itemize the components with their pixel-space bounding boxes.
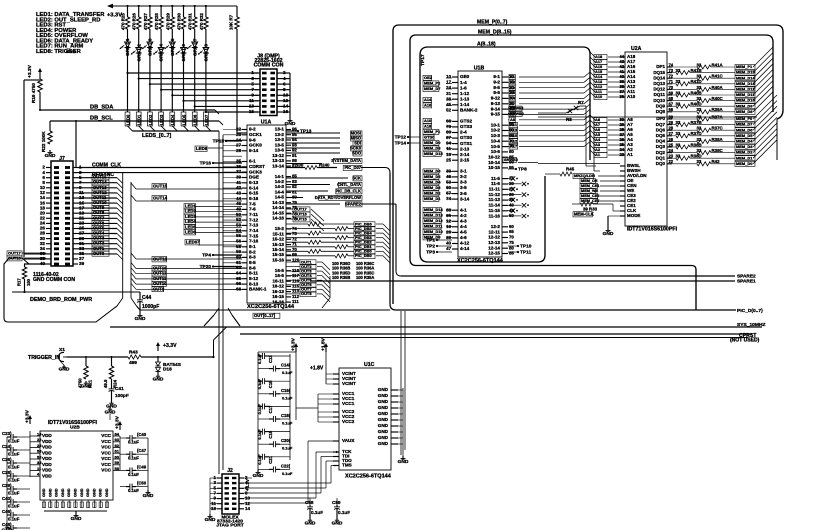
ground xyxy=(45,150,56,159)
svg-text:+3.3V: +3.3V xyxy=(27,64,33,78)
svg-text:11-11: 11-11 xyxy=(489,187,501,192)
svg-text:MEM_D0: MEM_D0 xyxy=(424,140,441,145)
svg-text:LED5: LED5 xyxy=(181,114,186,125)
svg-text:42: 42 xyxy=(236,185,241,190)
svg-text:60: 60 xyxy=(509,224,514,229)
svg-text:7-13: 7-13 xyxy=(249,223,259,228)
svg-text:MEM_D3: MEM_D3 xyxy=(424,185,441,190)
svg-text:9-1: 9-1 xyxy=(493,74,500,79)
wire U1A left pins xyxy=(223,130,242,290)
svg-text:A11: A11 xyxy=(510,122,518,127)
ground U1C xyxy=(398,388,409,465)
svg-text:72: 72 xyxy=(669,74,674,79)
svg-text:A4: A4 xyxy=(510,96,516,101)
svg-text:A1: A1 xyxy=(510,74,516,79)
svg-text:23: 23 xyxy=(236,132,241,137)
svg-text:69: 69 xyxy=(669,90,674,95)
svg-text:75: 75 xyxy=(509,240,514,245)
svg-text:MEM_D13: MEM_D13 xyxy=(736,81,755,86)
svg-text:30: 30 xyxy=(669,114,674,119)
wire CPRST xyxy=(240,333,760,344)
svg-text:8-5: 8-5 xyxy=(249,260,256,265)
svg-text:4-12: 4-12 xyxy=(460,241,470,246)
svg-text:MEM_D14: MEM_D14 xyxy=(424,207,443,212)
svg-text:2-4: 2-4 xyxy=(460,130,467,135)
svg-text:0.1uF: 0.1uF xyxy=(257,429,262,440)
svg-text:GND: GND xyxy=(105,488,109,497)
svg-text:36: 36 xyxy=(619,94,624,99)
svg-text:9-2: 9-2 xyxy=(249,127,256,132)
svg-text:D18: D18 xyxy=(163,367,172,373)
svg-text:10-3: 10-3 xyxy=(491,133,501,138)
svg-text:9-14: 9-14 xyxy=(249,148,259,153)
svg-text:15-16: 15-16 xyxy=(272,257,284,262)
LED D1 GRN xyxy=(120,29,131,56)
svg-text:8-3: 8-3 xyxy=(249,255,256,260)
svg-text:4-6: 4-6 xyxy=(460,235,467,240)
svg-text:PIC_DB_CLK: PIC_DB_CLK xyxy=(335,189,361,194)
svg-text:15-12: 15-12 xyxy=(272,237,284,242)
svg-text:MEM_D14: MEM_D14 xyxy=(736,75,755,80)
svg-text:GND: GND xyxy=(71,516,82,522)
svg-text:A5: A5 xyxy=(510,90,516,95)
svg-text:U1C: U1C xyxy=(364,362,375,368)
svg-text:DQ9: DQ9 xyxy=(656,103,666,108)
svg-text:MEM_D(8..15): MEM_D(8..15) xyxy=(478,30,512,36)
ground U2A xyxy=(603,216,620,237)
wire xyxy=(125,47,132,132)
svg-text:100pF: 100pF xyxy=(115,393,129,399)
svg-text:GTS0: GTS0 xyxy=(460,135,472,140)
svg-text:24: 24 xyxy=(446,85,451,90)
svg-text:GCK0: GCK0 xyxy=(249,143,262,148)
svg-text:TP14: TP14 xyxy=(395,140,407,146)
svg-text:7-5: 7-5 xyxy=(249,201,256,206)
capacitor bank C23-C40 xyxy=(2,431,30,530)
svg-text:LED0: LED0 xyxy=(125,114,130,125)
capacitor C58 xyxy=(305,498,324,526)
svg-text:12-13: 12-13 xyxy=(488,240,500,245)
svg-text:DQ12: DQ12 xyxy=(653,87,665,92)
power +3.3V LED rail xyxy=(107,4,237,19)
svg-text:R240: R240 xyxy=(319,163,330,168)
svg-text:TP10: TP10 xyxy=(520,243,532,249)
wire U1B to A bus xyxy=(508,72,590,149)
node LED1-LED7 labels xyxy=(184,204,242,246)
svg-text:DATA_RDY/OVERFLOW: DATA_RDY/OVERFLOW xyxy=(315,195,361,200)
svg-text:DQ2: DQ2 xyxy=(656,150,666,155)
wire JTAG signals xyxy=(244,441,333,503)
svg-text:VDD: VDD xyxy=(42,433,52,438)
svg-text:VDD: VDD xyxy=(42,456,52,461)
wire U1C power rails xyxy=(296,374,333,422)
svg-text:VAUX: VAUX xyxy=(342,438,355,443)
svg-text:100: 100 xyxy=(26,278,31,286)
svg-text:MEM_P0: MEM_P0 xyxy=(736,116,753,121)
wire U1A lower bus xyxy=(204,131,240,474)
svg-text:8-6: 8-6 xyxy=(249,265,256,270)
wire J7 outputs xyxy=(78,163,247,260)
svg-text:6-16: 6-16 xyxy=(249,196,259,201)
svg-text:LED3: LED3 xyxy=(159,114,164,125)
node A bus trunk xyxy=(590,52,620,158)
svg-text:PIC_D07: PIC_D07 xyxy=(344,165,361,170)
svg-text:70: 70 xyxy=(669,85,674,90)
node SPARE2 SPARE1 xyxy=(310,204,756,285)
svg-text:GND: GND xyxy=(378,387,389,392)
svg-text:470 R28: 470 R28 xyxy=(154,13,159,30)
svg-text:R40C: R40C xyxy=(712,96,724,101)
LED D3 GRN xyxy=(142,29,153,56)
svg-text:TP3: TP3 xyxy=(426,249,435,255)
svg-text:MEM_CE1: MEM_CE1 xyxy=(581,184,600,188)
svg-text:9-6: 9-6 xyxy=(493,90,500,95)
svg-text:GND: GND xyxy=(92,488,96,497)
test point TP1 TP2 TP3 xyxy=(426,237,452,255)
svg-text:1-14: 1-14 xyxy=(460,102,470,107)
svg-text:R17: R17 xyxy=(17,278,22,286)
svg-text:50: 50 xyxy=(236,212,241,217)
svg-text:C14(: C14( xyxy=(281,363,291,368)
svg-text:7-12: 7-12 xyxy=(249,217,259,222)
svg-text:45: 45 xyxy=(446,102,451,107)
svg-text:470 R32: 470 R32 xyxy=(199,13,204,30)
svg-text:A8: A8 xyxy=(510,117,516,122)
wire OUT bus trunk xyxy=(117,172,137,306)
resistor R32 470 xyxy=(199,5,208,30)
svg-text:100 R35A: 100 R35A xyxy=(356,275,374,280)
svg-text:VDD: VDD xyxy=(42,450,52,455)
svg-text:GND: GND xyxy=(106,403,117,409)
svg-text:4-3: 4-3 xyxy=(460,219,467,224)
svg-text:GND COMM CON: GND COMM CON xyxy=(33,277,75,283)
svg-text:0.1uF: 0.1uF xyxy=(128,456,139,461)
svg-text:DQ10: DQ10 xyxy=(653,98,665,103)
svg-text:DQ14: DQ14 xyxy=(653,75,665,80)
resistor R21 4750 xyxy=(78,357,93,389)
svg-text:1-6: 1-6 xyxy=(460,85,467,90)
test point TP15 xyxy=(213,138,242,144)
svg-text:VDD: VDD xyxy=(42,445,52,450)
svg-text:499: 499 xyxy=(129,360,137,366)
svg-text:GND: GND xyxy=(378,399,389,404)
svg-text:(C50: (C50 xyxy=(137,481,147,486)
svg-text:GND: GND xyxy=(378,411,389,416)
svg-text:LED7: LED7 xyxy=(204,114,209,125)
svg-text:OE2: OE2 xyxy=(424,75,433,80)
svg-text:R22 100K: R22 100K xyxy=(41,131,46,152)
svg-text:GND: GND xyxy=(378,435,389,440)
svg-text:R41B: R41B xyxy=(691,68,702,73)
svg-text:TP15: TP15 xyxy=(213,138,225,144)
svg-text:LED2: LED2 xyxy=(148,114,153,125)
svg-text:12-2: 12-2 xyxy=(491,224,501,229)
svg-text:SYSTEM_DATA: SYSTEM_DATA xyxy=(331,158,361,163)
LED D8 GRN xyxy=(198,29,209,62)
svg-text:R37C: R37C xyxy=(712,126,724,131)
svg-text:1-4: 1-4 xyxy=(460,80,467,85)
svg-text:GND: GND xyxy=(99,488,103,497)
svg-text:23: 23 xyxy=(619,152,624,157)
svg-text:LED1: LED1 xyxy=(137,114,142,125)
svg-text:TP12: TP12 xyxy=(395,134,407,140)
svg-text:MEM_D15: MEM_D15 xyxy=(424,151,443,156)
svg-text:MODE: MODE xyxy=(627,213,640,218)
svg-text:DP0: DP0 xyxy=(656,116,665,121)
LED legend text xyxy=(36,12,105,55)
svg-text:GND: GND xyxy=(253,473,264,479)
svg-text:VCC: VCC xyxy=(101,468,111,473)
svg-text:53: 53 xyxy=(236,223,241,228)
svg-text:0.1uF: 0.1uF xyxy=(282,395,293,400)
svg-text:9-14: 9-14 xyxy=(491,106,501,111)
resistor R28 470 xyxy=(154,5,163,30)
svg-text:SCK: SCK xyxy=(352,176,361,181)
capacitor bank C13-C22 xyxy=(257,352,296,476)
svg-text:C58: C58 xyxy=(305,500,314,505)
svg-text:7-6: 7-6 xyxy=(249,207,256,212)
svg-text:JTAG PORT: JTAG PORT xyxy=(216,523,244,529)
svg-text:OUT14: OUT14 xyxy=(153,196,168,201)
power +3.3V trigger xyxy=(156,342,177,357)
svg-text:29: 29 xyxy=(669,120,674,125)
svg-text:12-12: 12-12 xyxy=(488,235,500,240)
svg-text:MEM_D13: MEM_D13 xyxy=(424,213,443,218)
LED D7 GRN xyxy=(187,29,198,56)
svg-text:40: 40 xyxy=(446,241,451,246)
wire LED to J8 harness xyxy=(126,72,258,113)
svg-text:59: 59 xyxy=(236,249,241,254)
svg-text:6-1: 6-1 xyxy=(249,159,256,164)
svg-text:27: 27 xyxy=(236,143,241,148)
svg-text:GND: GND xyxy=(81,383,92,389)
capacitor bank C47-C50 xyxy=(120,432,148,493)
svg-text:0.1uF: 0.1uF xyxy=(282,471,293,476)
svg-text:A3: A3 xyxy=(510,79,516,84)
svg-text:DQ4: DQ4 xyxy=(656,139,666,144)
svg-text:11-16: 11-16 xyxy=(488,213,500,218)
svg-text:22: 22 xyxy=(669,159,674,164)
svg-text:MEM_D2: MEM_D2 xyxy=(424,191,441,196)
svg-text:SRWE2: SRWE2 xyxy=(504,157,519,162)
svg-text:VDD: VDD xyxy=(42,473,52,478)
node OUT17 OUT16 OUT15 taps xyxy=(286,207,324,232)
svg-text:MEM_D8: MEM_D8 xyxy=(736,109,753,114)
svg-text:A2: A2 xyxy=(510,85,516,90)
node OUT lower taps xyxy=(286,259,330,308)
svg-text:10-14: 10-14 xyxy=(488,160,500,165)
svg-text:MEM_D10: MEM_D10 xyxy=(424,229,443,234)
svg-text:28: 28 xyxy=(669,126,674,131)
svg-text:OUT0: OUT0 xyxy=(93,251,105,256)
svg-text:DQ13: DQ13 xyxy=(653,81,665,86)
svg-text:9-12: 9-12 xyxy=(491,96,501,101)
resistor R8 jumper xyxy=(538,117,757,171)
svg-text:0.1uF: 0.1uF xyxy=(282,446,293,451)
svg-text:13: 13 xyxy=(249,104,255,109)
svg-text:A18: A18 xyxy=(424,124,432,129)
svg-text:X1: X1 xyxy=(59,347,65,353)
resistor R22 100K xyxy=(41,121,52,152)
svg-text:36: 36 xyxy=(236,164,241,169)
test point TP13 xyxy=(286,128,312,134)
svg-text:VDD: VDD xyxy=(42,468,52,473)
svg-text:R37D: R37D xyxy=(691,131,702,136)
label J7 part number xyxy=(33,272,75,283)
svg-text:MEM-CLK: MEM-CLK xyxy=(574,212,594,217)
resistor R7 10K xyxy=(229,6,247,133)
svg-text:A17: A17 xyxy=(510,144,518,149)
svg-text:A(8..18): A(8..18) xyxy=(477,42,496,48)
svg-text:SYS_10MHZ: SYS_10MHZ xyxy=(737,322,765,328)
resistor R45 RZQ xyxy=(545,167,620,179)
resistor R29 470 xyxy=(165,5,174,30)
svg-text:A14: A14 xyxy=(424,97,432,102)
svg-text:MEM_D3: MEM_D3 xyxy=(736,144,753,149)
test point TP16 xyxy=(200,160,242,166)
svg-text:DQ15: DQ15 xyxy=(653,70,665,75)
connector J2 JTAG xyxy=(211,468,250,529)
svg-text:9-2: 9-2 xyxy=(493,80,500,85)
svg-text:25: 25 xyxy=(669,142,674,147)
svg-text:GND: GND xyxy=(61,488,65,497)
wire SYS_10MHZ xyxy=(110,322,765,328)
connector J7 COMM CON xyxy=(40,156,85,266)
svg-text:+3.3V: +3.3V xyxy=(163,343,177,349)
svg-text:70: 70 xyxy=(509,235,514,240)
svg-text:GND: GND xyxy=(55,488,59,497)
svg-text:0.1uF: 0.1uF xyxy=(128,440,139,445)
svg-text:0.1uF: 0.1uF xyxy=(282,370,293,375)
ground U2B caps xyxy=(143,490,154,499)
svg-text:12-15: 12-15 xyxy=(488,251,500,256)
svg-text:10-15: 10-15 xyxy=(488,165,500,170)
svg-text:46: 46 xyxy=(236,201,241,206)
svg-text:5: 5 xyxy=(251,81,254,86)
op-amp U1A XC2C256 section A xyxy=(236,120,300,311)
svg-text:28: 28 xyxy=(236,148,241,153)
svg-text:R39A: R39A xyxy=(712,107,724,112)
svg-text:GND: GND xyxy=(378,429,389,434)
svg-text:46: 46 xyxy=(446,174,451,179)
svg-text:MEM_CE2: MEM_CE2 xyxy=(581,194,600,198)
svg-text:GND: GND xyxy=(153,376,164,382)
svg-text:MEM_D2: MEM_D2 xyxy=(736,150,753,155)
svg-text:DQ11: DQ11 xyxy=(654,92,666,97)
ground J2 xyxy=(205,478,217,523)
svg-text:16-6: 16-6 xyxy=(275,273,285,278)
svg-text:9: 9 xyxy=(251,93,254,98)
svg-text:OUT15: OUT15 xyxy=(294,217,308,222)
svg-text:COMM CON: COMM CON xyxy=(254,63,284,69)
svg-text:DEMO_BRD_ROM_PWR: DEMO_BRD_ROM_PWR xyxy=(30,297,92,303)
resistor R240 100 xyxy=(286,163,390,174)
svg-text:100: 100 xyxy=(296,163,304,168)
svg-text:C16(: C16( xyxy=(281,388,291,393)
svg-text:MEM_D8: MEM_D8 xyxy=(424,146,441,151)
svg-text:55: 55 xyxy=(236,233,241,238)
power +3.3V left xyxy=(27,64,42,78)
connector X1 TRIGGER_IN xyxy=(28,347,70,373)
svg-text:BANK-2: BANK-2 xyxy=(460,108,478,113)
wire DEMO power rail xyxy=(12,291,140,293)
svg-text:MEM_D12: MEM_D12 xyxy=(424,218,443,223)
svg-text:MEM_D6: MEM_D6 xyxy=(424,169,441,174)
connector J8 COMM CON xyxy=(249,54,290,116)
svg-text:4-5: 4-5 xyxy=(460,230,467,235)
svg-text:MEM_P(0..7): MEM_P(0..7) xyxy=(477,20,508,26)
svg-text:VCC: VCC xyxy=(101,433,111,438)
svg-text:15: 15 xyxy=(249,109,255,114)
svg-text:GND: GND xyxy=(66,49,77,54)
svg-text:R38D: R38D xyxy=(691,154,702,159)
svg-text:R37B: R37B xyxy=(691,120,702,125)
svg-text:7: 7 xyxy=(251,87,254,92)
svg-text:66: 66 xyxy=(669,107,674,112)
svg-text:R38B: R38B xyxy=(691,142,702,147)
node memory control signals xyxy=(580,179,620,204)
svg-text:(C49: (C49 xyxy=(137,464,147,469)
wire trigger to CPLD xyxy=(212,327,226,358)
svg-text:GND: GND xyxy=(74,488,78,497)
resistor network R36 labels xyxy=(332,261,374,280)
svg-text:(C47: (C47 xyxy=(137,448,147,453)
wire xyxy=(170,47,177,132)
capacitor C44 1000pF xyxy=(135,292,160,322)
LED D5 GRN xyxy=(164,29,175,56)
svg-text:R40A: R40A xyxy=(712,85,724,90)
svg-text:9-15: 9-15 xyxy=(491,112,501,117)
svg-text:26: 26 xyxy=(669,137,674,142)
label U1A bus OUTS xyxy=(253,313,280,318)
svg-text:VCC: VCC xyxy=(101,462,111,467)
svg-text:DQ3: DQ3 xyxy=(656,144,666,149)
svg-text:R40D: R40D xyxy=(691,102,702,107)
svg-text:52: 52 xyxy=(236,217,241,222)
resistor R24 49.9 xyxy=(103,357,118,388)
svg-text:OUT9: OUT9 xyxy=(153,286,165,291)
LED D6 GRN xyxy=(176,29,187,62)
svg-text:VDD: VDD xyxy=(42,462,52,467)
svg-text:U2A: U2A xyxy=(631,46,642,52)
svg-text:DGE: DGE xyxy=(249,175,259,180)
svg-text:25: 25 xyxy=(446,157,451,162)
svg-text:VCC1: VCC1 xyxy=(342,401,355,406)
svg-text:VCC: VCC xyxy=(101,450,111,455)
svg-text:0.1uF: 0.1uF xyxy=(257,353,262,364)
wire xyxy=(192,47,199,132)
power +3.3V U2B right xyxy=(115,415,123,436)
svg-text:VCINT: VCINT xyxy=(342,381,356,386)
power +3.3V U2B left xyxy=(25,409,33,431)
node LED8 xyxy=(195,146,223,151)
svg-text:11-6: 11-6 xyxy=(491,181,500,186)
svg-text:2-15: 2-15 xyxy=(460,157,470,162)
svg-text:R19 4750: R19 4750 xyxy=(31,83,36,103)
svg-text:XC2C256-6TQ144: XC2C256-6TQ144 xyxy=(345,474,392,480)
svg-text:64: 64 xyxy=(236,271,241,276)
svg-text:GND: GND xyxy=(67,488,71,497)
svg-text:0.1uF: 0.1uF xyxy=(8,504,20,509)
svg-text:14: 14 xyxy=(245,506,250,511)
power +3.3V J2 xyxy=(244,478,252,491)
svg-text:MEM_D1: MEM_D1 xyxy=(736,155,753,160)
svg-text:0.1uF: 0.1uF xyxy=(257,403,262,414)
svg-text:22: 22 xyxy=(236,127,241,132)
svg-text:1000pF: 1000pF xyxy=(142,304,159,310)
no-connect jumpers U1B xyxy=(508,176,529,218)
wire xyxy=(159,52,166,131)
